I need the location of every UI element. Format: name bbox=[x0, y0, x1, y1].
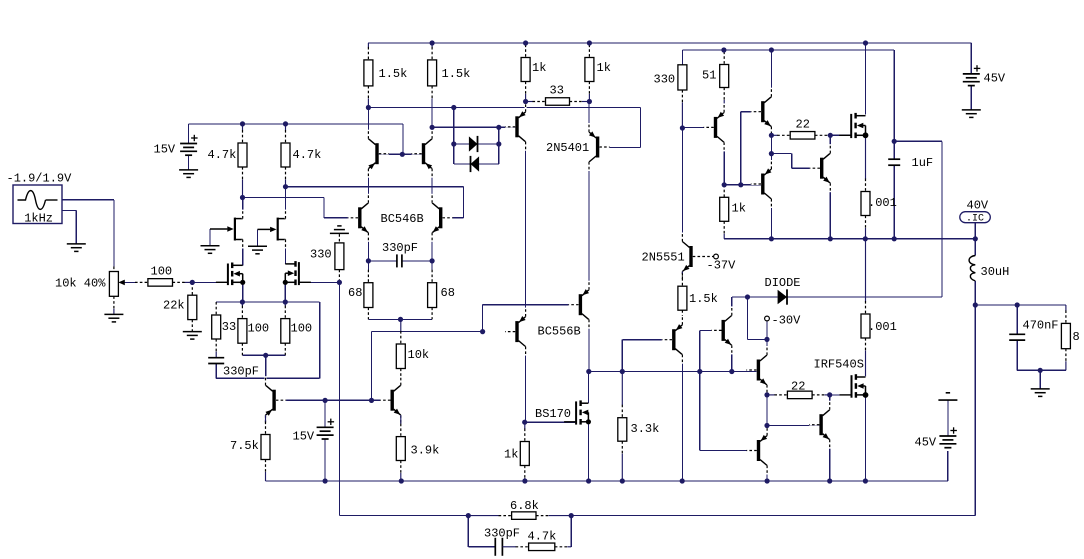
ground J1 gate bbox=[201, 245, 220, 247]
junction node vas out / bias bbox=[697, 369, 702, 374]
junction node tail join bbox=[263, 353, 268, 358]
junction node R9 / J2 drain bbox=[283, 184, 288, 189]
transistor Q7 2N5401 bbox=[596, 137, 599, 158]
junction node fb gate bbox=[337, 280, 342, 285]
wire q5 emit up bbox=[525, 102, 527, 112]
junction node top rail / R12 bbox=[523, 40, 528, 45]
junction node M2 src line bbox=[283, 299, 288, 304]
svg-text:10k: 10k bbox=[408, 348, 430, 362]
wire no2 col up bbox=[829, 135, 831, 153]
resistor R9 4.7k bbox=[285, 124, 287, 131]
wire load bottom bbox=[1017, 369, 1066, 371]
wire nl2 base bbox=[767, 425, 819, 427]
wire no1 col up bbox=[770, 50, 772, 97]
wire nu1 col up bbox=[731, 297, 733, 315]
transistor Q1 PNP mirror bbox=[375, 143, 378, 164]
junction node input gate bbox=[190, 280, 195, 285]
junction node boot rail / Q14 bbox=[769, 47, 774, 52]
svg-text:330pF: 330pF bbox=[382, 241, 418, 255]
wire out node line bbox=[975, 304, 1066, 306]
wire bat15a stem bbox=[188, 155, 190, 170]
svg-text:100: 100 bbox=[151, 265, 173, 279]
transistor Q2 PNP mirror bbox=[422, 143, 425, 164]
wire q2m col up bbox=[431, 99, 433, 139]
wire nu2 col up bbox=[766, 339, 768, 355]
wire gate J1 gnd bbox=[210, 228, 227, 230]
wire -30 stub bbox=[766, 321, 768, 340]
transistor Q12 PNP vas bbox=[672, 329, 675, 350]
wire cap33 bottom bbox=[215, 364, 217, 379]
svg-text:IRF540S: IRF540S bbox=[814, 358, 864, 372]
wire no1 emit down bbox=[770, 127, 772, 136]
junction node fb rc join bbox=[569, 513, 574, 518]
junction node output / L1 bbox=[973, 302, 978, 307]
svg-text:DIODE: DIODE bbox=[765, 276, 801, 290]
junction node bias rail / R10 bbox=[366, 105, 371, 110]
wire mid rail bbox=[724, 238, 975, 240]
svg-text:15V: 15V bbox=[154, 143, 176, 157]
junction node BS170 gate bbox=[522, 420, 527, 425]
transistor Q8 BC556B bbox=[515, 321, 518, 342]
junction node Q19 emitter bbox=[764, 423, 769, 428]
transistor Q3 BC546B bbox=[358, 207, 361, 228]
svg-text:7.5k: 7.5k bbox=[230, 439, 259, 453]
svg-text:1k: 1k bbox=[532, 61, 546, 75]
svg-text:.001: .001 bbox=[868, 320, 897, 334]
svg-text:30uH: 30uH bbox=[981, 265, 1010, 279]
MOSFET M1 input bbox=[231, 263, 233, 269]
probe -30V node bbox=[765, 316, 770, 321]
diode D2 bbox=[471, 156, 480, 171]
wire clamp left leg bbox=[453, 108, 455, 165]
wire ind top bbox=[974, 239, 976, 256]
svg-text:10k 40%: 10k 40% bbox=[55, 277, 106, 291]
svg-text:100: 100 bbox=[248, 322, 270, 336]
svg-text:51: 51 bbox=[702, 69, 716, 83]
resistor R3 22k bbox=[191, 282, 193, 295]
wire R100 to gates node bbox=[185, 281, 228, 283]
probe -37V node bbox=[714, 254, 719, 259]
wire q5 col down bbox=[525, 142, 527, 317]
wire po2 col down bbox=[770, 199, 772, 239]
junction node mid rail Q15c bbox=[769, 236, 774, 241]
transistor Q20 NPN vbe2 bbox=[819, 414, 822, 435]
wire q6 collector up bbox=[265, 360, 267, 385]
wire vas base up bbox=[483, 305, 579, 332]
transistor Q10 NPN source bbox=[391, 390, 394, 411]
junction node clamp top R bbox=[496, 141, 501, 146]
JFET J2 bbox=[277, 218, 279, 241]
wire cascode bias rail bbox=[368, 108, 640, 148]
ground 330 fb bbox=[330, 232, 349, 234]
wire source gnd leg bbox=[62, 210, 76, 244]
ground 22k bbox=[183, 331, 202, 333]
wire nl2 emit down bbox=[829, 440, 831, 481]
junction node -30V bbox=[764, 337, 769, 342]
wire bat2 gnd stem bbox=[947, 400, 949, 436]
svg-text:1.5k: 1.5k bbox=[442, 67, 471, 81]
wire J2 drain up bbox=[285, 187, 287, 219]
battery V2 15V bbox=[180, 143, 197, 145]
wire pl1 col down bbox=[766, 466, 768, 482]
svg-text:-37V: -37V bbox=[707, 259, 737, 273]
wire q9 col down bbox=[588, 320, 590, 372]
svg-text:BC546B: BC546B bbox=[381, 212, 424, 226]
transistor Q15 PNP drv bbox=[761, 174, 764, 195]
svg-text:6.8k: 6.8k bbox=[510, 499, 539, 513]
initial condition marker .IC bbox=[960, 212, 991, 223]
wire q4 emitter down bbox=[431, 233, 433, 270]
wire gate J1 gnd drop bbox=[209, 229, 211, 246]
wire bootstrap sub-rail bbox=[682, 50, 894, 141]
resistor R30 8 bbox=[1065, 305, 1067, 311]
wire 4.7k#1 to Q3 base bbox=[243, 198, 359, 218]
svg-text:22: 22 bbox=[791, 380, 805, 394]
junction node fb junction bbox=[466, 513, 471, 518]
wire 4.7k#2 to Q4 base bbox=[286, 187, 464, 218]
resistor R32 4.7k bbox=[503, 546, 517, 548]
wire clamp right leg bbox=[498, 127, 500, 164]
junction node vas out / 3.3k bbox=[620, 369, 625, 374]
JFET J1 bbox=[234, 218, 236, 241]
svg-text:45V: 45V bbox=[915, 436, 937, 450]
junction node M4 source bbox=[863, 132, 869, 138]
wire J1 drain up bbox=[242, 198, 244, 219]
wire fb vertical long bbox=[339, 282, 468, 515]
svg-text:4.7k: 4.7k bbox=[208, 148, 237, 162]
ground V4 bbox=[962, 109, 981, 111]
resistor R18 7.5k bbox=[265, 415, 267, 422]
wire fet1 drain bbox=[865, 43, 867, 115]
junction node bottom rail R19 bbox=[399, 478, 404, 483]
wire J2 source down bbox=[285, 240, 287, 264]
wire J1 source down bbox=[242, 240, 244, 266]
svg-text:2N5551: 2N5551 bbox=[642, 251, 685, 265]
resistor R7 330 bbox=[338, 234, 340, 243]
wire fb rc drop bbox=[468, 516, 495, 547]
junction node R23 / Q13 base bbox=[680, 125, 685, 130]
ground load bbox=[1031, 388, 1050, 390]
wire bs170 source down bbox=[587, 422, 589, 481]
wire pl1 emit up bbox=[766, 426, 768, 436]
resistor R22 1.5k bbox=[681, 272, 683, 274]
ground V5 inverted bbox=[938, 399, 957, 401]
wire diode anode line bbox=[732, 296, 778, 298]
wire battery2 to rail bbox=[947, 451, 949, 481]
resistor R8 4.7k bbox=[242, 124, 244, 131]
wire nu1 base bbox=[700, 329, 722, 331]
junction node base rail drop bbox=[369, 398, 374, 403]
svg-text:-30V: -30V bbox=[772, 314, 802, 328]
wire ic stem bbox=[974, 222, 976, 239]
wire Q5 base line bbox=[432, 126, 515, 128]
wire clamp bottom row b bbox=[479, 163, 499, 165]
potentiometer R1 wiper arrow bbox=[118, 280, 125, 286]
junction node bottom rail M3 bbox=[586, 478, 591, 483]
inductor L1 30uH bbox=[969, 256, 975, 281]
wire gate J2 gnd bbox=[258, 228, 270, 230]
wire M2 gate to fb node bbox=[300, 281, 340, 283]
wire o2b up bbox=[741, 112, 761, 185]
svg-text:8: 8 bbox=[1073, 330, 1080, 344]
junction node bottom rail V3 bbox=[323, 478, 328, 483]
svg-text:4.7k: 4.7k bbox=[528, 530, 557, 544]
wire po2 emit up bbox=[770, 154, 772, 169]
wire nu1 emit down bbox=[731, 345, 733, 371]
junction node M2 source bbox=[283, 280, 288, 285]
junction node C2 right bbox=[430, 258, 435, 263]
wire no2 emit down bbox=[829, 183, 831, 239]
wire Q11 base stub to probe bbox=[693, 256, 714, 258]
junction node R13-R14-Q7e bbox=[587, 99, 592, 104]
MOSFET M2 input bbox=[294, 261, 296, 267]
svg-text:33: 33 bbox=[550, 84, 564, 98]
wire cap330pF2 leads bbox=[368, 260, 397, 262]
wire clamp top row right bbox=[478, 143, 499, 145]
resistor R13 1k bbox=[588, 43, 590, 45]
junction node bottom rail R20 bbox=[522, 478, 527, 483]
ground source bbox=[67, 243, 86, 245]
junction node bias rail / clamp bbox=[451, 105, 456, 110]
resistor R11 1.5k bbox=[431, 43, 433, 47]
ground J2 gate bbox=[248, 245, 267, 247]
wire pl1 base loop bbox=[700, 372, 757, 451]
svg-text:330: 330 bbox=[310, 248, 332, 262]
svg-text:68: 68 bbox=[441, 286, 455, 300]
svg-text:1.5k: 1.5k bbox=[689, 292, 718, 306]
junction node 15V rail / R8 bbox=[240, 121, 245, 126]
junction node mid rail .001a bbox=[863, 236, 868, 241]
junction node boot / C3 bbox=[892, 139, 897, 144]
svg-text:3.9k: 3.9k bbox=[411, 444, 440, 458]
resistor R12 1k bbox=[525, 43, 527, 45]
ground pot bbox=[104, 313, 123, 315]
wire bat15b bottom bbox=[324, 439, 326, 481]
svg-text:1uF: 1uF bbox=[912, 156, 934, 170]
battery V4 45V bbox=[963, 73, 980, 75]
resistor R4 33 bbox=[215, 302, 217, 315]
resistor R31 6.8k bbox=[468, 515, 499, 517]
transistor Q19 PNP low bbox=[757, 440, 760, 461]
junction node Q14 base drop bbox=[738, 182, 743, 187]
wire vas out node bbox=[589, 371, 757, 373]
wire vas input drop bbox=[371, 332, 373, 401]
wire q8 col down bbox=[525, 347, 527, 423]
svg-text:1k: 1k bbox=[597, 61, 611, 75]
svg-text:330: 330 bbox=[654, 73, 676, 87]
junction node M5 source bbox=[863, 392, 869, 398]
wire nl2 col up bbox=[829, 395, 831, 410]
junction node diode anode bbox=[745, 294, 750, 299]
junction node bottom rail R21 bbox=[620, 478, 625, 483]
transistor Q16 NPN vbe bbox=[820, 158, 823, 179]
wire 15V rail bbox=[189, 124, 403, 154]
resistor R25 1k bbox=[723, 185, 725, 198]
svg-text:1k: 1k bbox=[504, 448, 518, 462]
junction node 68s / R17 bbox=[398, 317, 403, 322]
junction node top rail / R13 bbox=[587, 40, 592, 45]
junction node top rail / R11 bbox=[430, 40, 435, 45]
wire 1uF top bbox=[893, 141, 895, 159]
voltage source V1 box bbox=[13, 185, 62, 224]
resistor R24 51 bbox=[723, 50, 725, 52]
junction node clamp top L bbox=[451, 141, 456, 146]
battery V3 15V bbox=[317, 426, 334, 428]
transistor Q5 2N5401 bbox=[515, 116, 518, 137]
wire base rail bbox=[276, 399, 391, 401]
svg-text:33: 33 bbox=[222, 320, 236, 334]
svg-text:330pF: 330pF bbox=[223, 365, 259, 379]
wire -30 drop bbox=[748, 297, 768, 339]
junction node output / C4 bbox=[1015, 302, 1020, 307]
resistor R15 68 bbox=[367, 270, 369, 283]
wire qv2 col to rail bbox=[681, 355, 683, 481]
junction node mid rail C3 bbox=[892, 236, 897, 241]
transistor Q14 NPN boot bbox=[761, 101, 764, 122]
wire bat15b top bbox=[324, 400, 326, 427]
wire qv2 base bbox=[622, 339, 672, 341]
wire 1uF bottom bbox=[893, 165, 895, 239]
junction node Q5 base / R11 bbox=[430, 125, 435, 130]
junction node vas out / BS170 bbox=[586, 369, 591, 374]
resistor R16 68 bbox=[431, 270, 433, 283]
svg-text:470nF: 470nF bbox=[1023, 319, 1059, 333]
junction node M1 source bbox=[240, 280, 245, 285]
capacitor C2 330pF bbox=[396, 254, 398, 267]
wire o1 col down bbox=[723, 142, 725, 184]
wire o-line 184 bbox=[724, 184, 761, 186]
wire M2 source down bbox=[284, 282, 286, 302]
MOSFET M4 output bbox=[854, 113, 856, 119]
diode D1 bbox=[469, 136, 478, 151]
junction node R12-R14-Q5e bbox=[523, 99, 528, 104]
junction node bottom rail M5 bbox=[863, 478, 868, 483]
junction node boot rail / R24 bbox=[721, 47, 726, 52]
resistor R2 100 bbox=[135, 281, 148, 283]
resistor R6 100 bbox=[284, 302, 286, 306]
junction node vas out / Q17e bbox=[729, 369, 734, 374]
junction node base rail / V3 bbox=[323, 398, 328, 403]
svg-text:4.7k: 4.7k bbox=[293, 148, 322, 162]
wire q3 emitter down bbox=[367, 233, 369, 270]
wire node394 down bbox=[766, 395, 768, 426]
wire pot wiper to R100 bbox=[124, 281, 136, 283]
svg-text:1k: 1k bbox=[732, 202, 746, 216]
svg-text:15V: 15V bbox=[293, 430, 315, 444]
junction node C2 left bbox=[366, 258, 371, 263]
wire fb rc up bbox=[570, 516, 572, 547]
svg-text:1.5k: 1.5k bbox=[379, 67, 408, 81]
junction node R28 / M5 gate bbox=[827, 392, 832, 397]
wire vas input bbox=[372, 331, 483, 333]
resistor R5 100 bbox=[241, 302, 243, 306]
svg-text:3.3k: 3.3k bbox=[631, 422, 660, 436]
capacitor C5 330pF fb bbox=[494, 538, 496, 556]
wire 2n5551 col up bbox=[681, 128, 683, 242]
resistor R29 .001 bbox=[865, 239, 867, 302]
wire bat1 stem bbox=[970, 86, 972, 110]
svg-text:22k: 22k bbox=[163, 299, 185, 313]
junction node mid rail .IC bbox=[973, 236, 978, 241]
svg-text:1kHz: 1kHz bbox=[24, 212, 53, 226]
wire M1 source down bbox=[242, 282, 244, 302]
diode D3 DIODE bbox=[778, 290, 787, 304]
wire mirror base link bbox=[379, 153, 422, 155]
svg-text:100: 100 bbox=[291, 322, 313, 336]
junction node bottom rail Q19 bbox=[765, 478, 770, 483]
junction node Q14e / R26 bbox=[769, 133, 774, 138]
transistor Q13 PNP pre bbox=[714, 117, 717, 138]
svg-text:2N5401: 2N5401 bbox=[546, 141, 589, 155]
wire q1m col up bbox=[367, 108, 369, 139]
wire gate dot - irf bbox=[830, 394, 851, 396]
wire 3.3k chain bbox=[621, 340, 623, 372]
junction node Q15 emitter bbox=[769, 151, 774, 156]
resistor R20 1k bbox=[524, 422, 526, 429]
wire cap330pF2 leads b bbox=[402, 260, 432, 262]
svg-text:-1.9/1.9V: -1.9/1.9V bbox=[7, 172, 73, 186]
resistor R23 330 bbox=[681, 103, 683, 129]
junction node bottom rail Q20 bbox=[827, 478, 832, 483]
svg-text:40V: 40V bbox=[967, 199, 989, 213]
wire bottom rail bbox=[266, 480, 948, 482]
svg-text:BC556B: BC556B bbox=[538, 325, 581, 339]
wire vbe loop bbox=[771, 154, 820, 169]
wire 470n top bbox=[1016, 305, 1018, 334]
wire source out bbox=[62, 200, 114, 267]
resistor R27 .001 bbox=[865, 135, 867, 179]
wire fb from output bbox=[571, 305, 975, 516]
wire gate dot - fet1 bbox=[830, 134, 850, 136]
wire 470n bottom bbox=[1016, 340, 1018, 370]
resistor R14 33 bbox=[526, 101, 533, 103]
MOSFET M5 IRF540S bbox=[855, 374, 857, 380]
wire common source line bbox=[216, 301, 320, 303]
junction node R25 top bbox=[722, 182, 727, 187]
transistor Q9 BC556B bbox=[579, 294, 582, 315]
wire 68 bottoms bbox=[368, 318, 432, 320]
svg-text:330pF: 330pF bbox=[484, 527, 520, 541]
ground V2 bbox=[179, 169, 198, 171]
svg-text:.001: .001 bbox=[868, 196, 897, 210]
transistor Q4 BC546B bbox=[439, 207, 442, 228]
wire q4 collector up bbox=[431, 169, 433, 203]
capacitor C3 1uF bbox=[888, 158, 900, 160]
wire clamp bottom row bbox=[454, 163, 471, 165]
resistor R17 10k bbox=[400, 319, 402, 331]
wire tail drop bbox=[265, 355, 267, 385]
transistor Q11 2N5551 bbox=[689, 246, 692, 267]
junction node bottom rail Q12 bbox=[680, 478, 685, 483]
junction node Q18e / R28 bbox=[764, 392, 769, 397]
resistor R10 1.5k bbox=[367, 43, 369, 47]
transistor Q6 PNP source bbox=[272, 390, 275, 411]
wire q3 collector up bbox=[367, 169, 369, 203]
wire ind bottom bbox=[974, 281, 976, 305]
resistor R28 22 bbox=[767, 394, 775, 396]
resistor R21 3.3k bbox=[621, 372, 623, 406]
junction node top rail / M4 drain bbox=[863, 40, 868, 45]
junction node load ground bbox=[1038, 368, 1043, 373]
junction node M1 src line bbox=[240, 299, 245, 304]
junction node 15V rail / R9 bbox=[283, 121, 288, 126]
wire q7 col down bbox=[588, 162, 590, 290]
wire top +45V rail bbox=[368, 43, 971, 74]
svg-text:BS170: BS170 bbox=[535, 407, 571, 421]
junction node R26 / M4 gate bbox=[828, 133, 833, 138]
wire bs170 gate bbox=[525, 421, 575, 423]
wire load gnd stem bbox=[1039, 370, 1041, 389]
